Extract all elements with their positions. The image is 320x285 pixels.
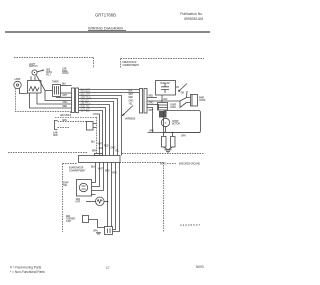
wiring diagram title bbox=[88, 26, 126, 31]
svg-text:BRN: BRN bbox=[92, 151, 97, 153]
connector block 2 bbox=[140, 89, 148, 114]
wire connector2 row d bbox=[147, 108, 154, 133]
svg-text:GRN: GRN bbox=[181, 136, 186, 138]
svg-text:17: 17 bbox=[106, 266, 110, 270]
svg-text:ORG: ORG bbox=[129, 100, 134, 102]
wire thermostat left lead bbox=[30, 93, 72, 108]
svg-text:LOAD: LOAD bbox=[170, 106, 176, 109]
dashed border bottom right bbox=[122, 153, 204, 155]
svg-text:24036607: 24036607 bbox=[180, 223, 200, 227]
wire timer bottom to connector bbox=[56, 96, 72, 99]
svg-text:WIRING DIAGRAM: WIRING DIAGRAM bbox=[88, 26, 123, 31]
labels below lower connector bbox=[91, 167, 117, 175]
light switch label bbox=[29, 64, 38, 68]
svg-text:TIMER: TIMER bbox=[52, 82, 59, 84]
wire switch to timer bbox=[45, 90, 52, 92]
wire evap drop 3 bbox=[92, 163, 104, 191]
defrost heater bbox=[86, 197, 108, 206]
cap to switch wire bbox=[176, 86, 180, 88]
wire bundle row 4 bbox=[79, 99, 118, 156]
relay dark block bbox=[159, 111, 167, 118]
svg-text:LAMP: LAMP bbox=[15, 78, 21, 81]
wires to plug bbox=[180, 91, 187, 108]
wire timer top to connector bbox=[61, 84, 72, 86]
svg-text:GRT1786B: GRT1786B bbox=[95, 13, 116, 18]
plug label bbox=[199, 98, 206, 103]
wire labels before connector bbox=[63, 95, 69, 108]
svg-text:BLK: BLK bbox=[129, 91, 134, 93]
svg-text:BLK: BLK bbox=[91, 167, 96, 169]
wire connector2 row b bbox=[147, 99, 180, 102]
svg-text:SWITCH: SWITCH bbox=[29, 66, 38, 68]
ground terminal box bbox=[105, 227, 113, 235]
dashed border fresh food top right bbox=[121, 59, 205, 69]
ground leads bbox=[164, 147, 173, 150]
evaporator fan motor bbox=[77, 180, 96, 197]
svg-text:WHT: WHT bbox=[98, 144, 104, 146]
svg-text:PG 2: PG 2 bbox=[46, 75, 52, 77]
svg-text:YEL: YEL bbox=[115, 151, 120, 153]
power plug bbox=[187, 95, 198, 107]
note legend bbox=[160, 163, 200, 166]
wire bundle row 6 bbox=[79, 105, 110, 156]
wire evap drop 4 long bbox=[107, 163, 109, 228]
svg-text:RED: RED bbox=[149, 96, 154, 98]
wire bundle row 1 bbox=[79, 89, 139, 91]
wire drop 1 bbox=[79, 108, 106, 156]
defrost thermostat label bbox=[66, 216, 75, 223]
compressor label bbox=[172, 121, 180, 126]
svg-text:MOTOR: MOTOR bbox=[172, 124, 180, 126]
dashed border evaporator right bbox=[163, 163, 165, 233]
svg-text:RED: RED bbox=[63, 106, 68, 108]
svg-text:GRN: GRN bbox=[149, 131, 154, 133]
cord terminal 1 bbox=[162, 132, 167, 147]
overload label bbox=[170, 105, 176, 110]
svg-text:COMPARTMENT: COMPARTMENT bbox=[69, 169, 86, 172]
svg-text:BLK: BLK bbox=[62, 84, 67, 86]
connector labels left bbox=[62, 68, 69, 76]
svg-text:C: C bbox=[165, 123, 167, 125]
ground path wire 4 bbox=[58, 127, 71, 129]
svg-text:ORG: ORG bbox=[112, 173, 117, 175]
svg-text:FRESH FOOD: FRESH FOOD bbox=[123, 62, 137, 64]
svg-text:HTR: HTR bbox=[76, 202, 81, 204]
wire timer right to connector bbox=[61, 92, 72, 94]
connector block 1 bbox=[72, 88, 79, 113]
wire labels col2 bbox=[129, 91, 135, 106]
ground path wire 2 bbox=[55, 117, 97, 154]
svg-text:GROUND: GROUND bbox=[60, 115, 70, 117]
compressor housing box bbox=[164, 111, 201, 133]
ground wire GRN bbox=[148, 131, 201, 138]
dashed border fresh food top left bbox=[14, 58, 94, 69]
ground mark bbox=[93, 231, 101, 235]
svg-text:COMPARTMENT: COMPARTMENT bbox=[123, 64, 140, 67]
light switch S1 bbox=[32, 70, 45, 91]
wire cap bottom lead bbox=[161, 95, 163, 101]
run capacitor box bbox=[156, 81, 176, 96]
wire color labels after connector bbox=[81, 89, 92, 112]
svg-text:HARNESS: HARNESS bbox=[125, 118, 136, 121]
svg-text:Publication No.: Publication No. bbox=[180, 12, 203, 16]
svg-text:5995353 6M: 5995353 6M bbox=[184, 17, 203, 21]
dashed border evaporator left bbox=[62, 164, 64, 233]
svg-text:RED: RED bbox=[129, 97, 134, 99]
svg-text:ORG: ORG bbox=[63, 102, 68, 104]
svg-text:GRN: GRN bbox=[93, 231, 98, 233]
compressor circle bbox=[161, 118, 169, 126]
wire bundle row 3 bbox=[79, 96, 122, 156]
svg-text:SW: SW bbox=[181, 93, 185, 95]
svg-text:ORG: ORG bbox=[111, 148, 116, 150]
fresh food compartment label bbox=[123, 62, 140, 67]
thermostat box bbox=[28, 81, 42, 94]
wire evap drop 1 bbox=[92, 163, 96, 183]
svg-text:BLK: BLK bbox=[91, 142, 96, 144]
line switch bbox=[179, 84, 188, 92]
svg-text:INDICATES GROUND: INDICATES GROUND bbox=[179, 163, 200, 166]
two pin connector bbox=[87, 122, 97, 131]
dashed border bottom left bbox=[8, 152, 88, 154]
lamp right lead bbox=[20, 88, 28, 93]
thermostat top leads bbox=[31, 76, 35, 80]
svg-text:CONN: CONN bbox=[62, 73, 69, 75]
wire thermostat right lead bbox=[37, 93, 72, 104]
svg-text:GRA: GRA bbox=[99, 147, 104, 150]
svg-text:WHT: WHT bbox=[129, 94, 135, 96]
compressor bottom lead bbox=[165, 127, 167, 133]
wire evap drop 5 long bbox=[111, 163, 113, 228]
evap fan label bbox=[63, 182, 69, 188]
lamp L1 bbox=[14, 81, 21, 88]
wire drop 2 bbox=[79, 111, 103, 156]
svg-text:N093: N093 bbox=[196, 265, 204, 269]
overload protector bbox=[158, 103, 168, 111]
svg-text:WHT: WHT bbox=[63, 95, 69, 97]
ground clamp bracket bbox=[55, 121, 58, 130]
ground clamp labels bbox=[53, 115, 70, 137]
see note label bbox=[46, 70, 52, 77]
dashed border evaporator box top bbox=[63, 163, 164, 164]
wire evap drop 7 bbox=[113, 163, 120, 232]
footer fast moving parts bbox=[10, 266, 45, 274]
wire connector2 row c bbox=[147, 103, 158, 110]
defrost timer bbox=[53, 85, 61, 97]
svg-text:EVAPORATOR: EVAPORATOR bbox=[69, 167, 84, 170]
header rule bbox=[5, 31, 210, 32]
cord terminal 2 bbox=[171, 132, 176, 147]
evaporator compartment label bbox=[69, 167, 86, 173]
svg-text:FAN: FAN bbox=[63, 184, 68, 187]
ground path wire 3 bbox=[58, 121, 87, 123]
defrost heater label bbox=[76, 199, 81, 204]
svg-text:GND: GND bbox=[53, 135, 58, 137]
defrost thermostat bbox=[83, 216, 105, 228]
svg-text:WHT: WHT bbox=[98, 169, 104, 171]
wire bundle row 2 bbox=[79, 92, 139, 94]
ground path wire from lamp bbox=[16, 88, 71, 117]
wire connector2 row a bbox=[147, 96, 157, 98]
wire evap drop 2 bbox=[92, 163, 100, 187]
svg-text:ORG: ORG bbox=[149, 103, 154, 105]
wire switch branch to connector bbox=[45, 91, 72, 101]
ground symbol bbox=[165, 150, 172, 153]
svg-text:CORD: CORD bbox=[199, 100, 206, 102]
svg-text:STAT: STAT bbox=[66, 220, 72, 223]
note arrow bbox=[122, 106, 134, 117]
lower connector bar bbox=[79, 154, 121, 163]
wire bundle row 5 bbox=[79, 102, 114, 156]
publication number text bbox=[180, 12, 203, 21]
svg-text:* = Non-Functional Parts: * = Non-Functional Parts bbox=[10, 270, 45, 274]
svg-text:RED: RED bbox=[104, 146, 109, 148]
wire evap drop 6 bbox=[113, 163, 116, 230]
labels above lower connector bbox=[91, 142, 120, 153]
svg-text:WHT: WHT bbox=[149, 110, 155, 112]
wire drop 3 bbox=[93, 114, 100, 156]
svg-text:BLK: BLK bbox=[164, 99, 169, 101]
